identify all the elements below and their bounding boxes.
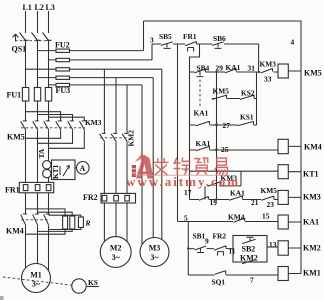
svg-text:KS1: KS1 xyxy=(240,113,254,122)
svg-text:KM2: KM2 xyxy=(240,254,258,263)
svg-text:3~: 3~ xyxy=(32,280,41,289)
svg-text:FR2: FR2 xyxy=(213,232,227,241)
svg-text:KA1: KA1 xyxy=(230,189,245,198)
svg-text:FR1: FR1 xyxy=(5,186,20,195)
svg-text:3~: 3~ xyxy=(112,253,121,262)
svg-text:M2: M2 xyxy=(110,244,122,253)
svg-text:15: 15 xyxy=(262,212,270,221)
svg-text:FU3: FU3 xyxy=(56,86,71,95)
svg-text:FR1: FR1 xyxy=(183,32,197,41)
svg-text:KA1: KA1 xyxy=(194,109,209,118)
svg-text:M3: M3 xyxy=(149,244,161,253)
svg-text:KA1: KA1 xyxy=(226,63,241,72)
svg-text:M1: M1 xyxy=(30,271,42,280)
svg-text:FU2: FU2 xyxy=(55,41,70,50)
svg-text:23: 23 xyxy=(267,200,275,209)
svg-text:SQ1: SQ1 xyxy=(212,278,226,287)
svg-text:www.aitmy.com: www.aitmy.com xyxy=(126,174,240,189)
svg-text:A: A xyxy=(80,164,86,173)
svg-text:33: 33 xyxy=(264,75,272,84)
svg-text:KM4: KM4 xyxy=(228,213,245,222)
svg-text:KM1: KM1 xyxy=(303,269,321,278)
svg-text:KM4: KM4 xyxy=(304,143,322,152)
svg-text:KA1: KA1 xyxy=(303,218,319,227)
svg-text:3~: 3~ xyxy=(150,253,159,262)
svg-text:KT1: KT1 xyxy=(303,170,319,179)
svg-text:KS2: KS2 xyxy=(241,89,255,98)
svg-text:31: 31 xyxy=(248,64,256,73)
svg-text:21: 21 xyxy=(251,198,259,207)
svg-text:L1: L1 xyxy=(23,3,32,12)
svg-text:KM5: KM5 xyxy=(304,69,322,78)
svg-text:KM3: KM3 xyxy=(303,193,321,202)
svg-text:KM5: KM5 xyxy=(213,87,230,96)
svg-text:4: 4 xyxy=(291,38,295,47)
svg-text:SB2: SB2 xyxy=(242,245,256,254)
svg-text:KM5: KM5 xyxy=(261,186,278,195)
svg-text:3: 3 xyxy=(150,36,154,45)
svg-text:29: 29 xyxy=(216,64,224,73)
svg-text:KS: KS xyxy=(88,278,98,287)
svg-text:19: 19 xyxy=(210,198,218,207)
svg-text:17: 17 xyxy=(184,188,192,197)
svg-text:27: 27 xyxy=(223,121,231,130)
svg-text:SB6: SB6 xyxy=(213,34,226,43)
svg-text:5: 5 xyxy=(184,214,188,223)
svg-text:SB5: SB5 xyxy=(159,32,172,41)
svg-text:KM4: KM4 xyxy=(6,227,24,236)
svg-text:25: 25 xyxy=(221,145,229,154)
svg-text:KM3: KM3 xyxy=(85,118,102,127)
svg-text:7: 7 xyxy=(250,276,254,285)
svg-text:SB1: SB1 xyxy=(193,232,206,241)
svg-text:SB4: SB4 xyxy=(197,64,210,73)
svg-text:KM5: KM5 xyxy=(7,133,25,142)
svg-text:13: 13 xyxy=(269,240,277,249)
svg-text:KM2: KM2 xyxy=(303,244,321,253)
svg-text:9: 9 xyxy=(205,237,209,246)
svg-text:FR2: FR2 xyxy=(83,193,98,202)
svg-text:L2: L2 xyxy=(35,3,44,12)
svg-text:R: R xyxy=(85,219,91,228)
svg-text:11: 11 xyxy=(229,247,236,256)
svg-text:KT1: KT1 xyxy=(51,164,60,179)
svg-text:KA1: KA1 xyxy=(196,139,211,148)
svg-text:TA: TA xyxy=(37,148,46,158)
svg-text:L3: L3 xyxy=(46,3,55,12)
svg-text:KM2: KM2 xyxy=(127,130,136,147)
svg-text:QS1: QS1 xyxy=(12,45,27,54)
svg-text:KM3: KM3 xyxy=(260,60,277,69)
svg-text:FU1: FU1 xyxy=(7,91,22,100)
